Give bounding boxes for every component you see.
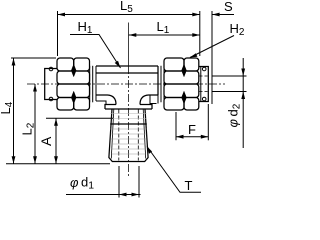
leader H1 [70, 35, 121, 69]
dimension L5 [58, 11, 200, 56]
left nut [57, 58, 90, 110]
leader H2 [190, 36, 234, 58]
dimension L1 [129, 33, 200, 37]
wire vertical centerline [127, 23, 129, 67]
svg-text:L5: L5 [120, 0, 133, 15]
svg-text:L1: L1 [157, 19, 170, 36]
wire horizontal centerline [27, 83, 225, 85]
svg-text:d1: d1 [81, 175, 94, 192]
dimension phi d1 [66, 166, 141, 198]
svg-text:F: F [188, 122, 196, 137]
svg-text:φ: φ [70, 175, 79, 190]
svg-text:H2: H2 [230, 21, 245, 38]
washer left [90, 66, 96, 103]
left tube stub [45, 67, 57, 101]
svg-text:d2: d2 [226, 103, 243, 116]
dimension F [176, 104, 208, 140]
svg-text:S: S [224, 0, 233, 14]
svg-text:φ: φ [226, 119, 241, 128]
svg-text:H1: H1 [78, 19, 93, 36]
svg-text:A: A [38, 136, 54, 146]
bottom extension line [6, 163, 110, 165]
body of tee [96, 66, 158, 105]
dimension A [46, 118, 113, 164]
dimension S [212, 11, 234, 104]
dimension phi d2 [212, 58, 247, 148]
dimension L2 [33, 84, 37, 164]
svg-text:L4: L4 [0, 101, 15, 114]
right nut [164, 58, 199, 110]
branch thread [109, 109, 148, 162]
svg-text:T: T [185, 178, 193, 193]
right tube stub [199, 67, 209, 102]
leader T [147, 147, 201, 193]
washer right [158, 66, 164, 104]
svg-text:L2: L2 [20, 122, 37, 135]
branch collar [105, 105, 152, 110]
dimension L4 [11, 58, 56, 164]
